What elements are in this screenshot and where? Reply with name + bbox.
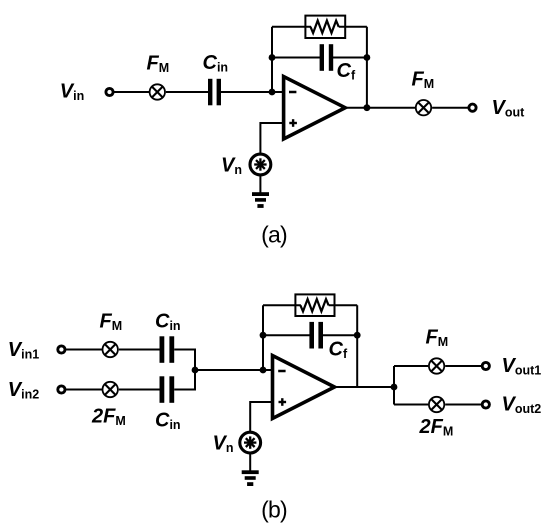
- mixer M4 (chopper 2FM, input 2): [103, 382, 118, 397]
- wire Cin top to join vertical: [174, 349, 196, 351]
- wire Cin to op-amp inverting input: [221, 91, 284, 93]
- wire mixer to output terminal: [432, 107, 468, 109]
- junction output node: [391, 384, 398, 391]
- wire mixer 2 to Cin bottom: [119, 389, 160, 391]
- input terminal Vin1: [58, 346, 65, 353]
- wire top branch to mixer: [394, 365, 428, 367]
- resistor R feedback (boxed): [295, 294, 334, 316]
- op-amp U2: [273, 356, 335, 419]
- svg-text:(b): (b): [261, 497, 287, 523]
- mixer M1 (chopper FM, input): [150, 84, 165, 99]
- wire feedback right vertical: [366, 27, 368, 108]
- noise source Vn: [250, 154, 271, 175]
- wire join vertical: [194, 350, 196, 390]
- wire op-amp non-inverting input to Vn: [250, 402, 272, 433]
- noise source Vn: [240, 432, 261, 453]
- wire input terminal to mixer: [110, 91, 149, 93]
- capacitor Cin (top): [160, 336, 175, 363]
- output terminal Vout: [469, 104, 476, 111]
- wire resistor branch left: [272, 26, 311, 28]
- node summing junction: [269, 89, 276, 96]
- junction Cf branch left: [260, 332, 267, 339]
- capacitor Cin (bottom): [160, 376, 175, 403]
- mixer M2 (chopper FM, output): [416, 100, 431, 115]
- output terminal Vout2: [482, 401, 489, 408]
- capacitor Cf: [309, 322, 323, 349]
- junction summing node: [192, 367, 199, 374]
- input terminal Vin2: [58, 386, 65, 393]
- wire Cf branch left: [272, 57, 321, 59]
- junction Cf branch right: [364, 54, 371, 61]
- wire Vn to ground: [259, 175, 261, 193]
- capacitor Cin: [208, 79, 221, 106]
- resistor R feedback (boxed): [305, 16, 345, 38]
- wire resistor branch right: [329, 304, 358, 306]
- wire Cf branch right: [322, 334, 357, 336]
- wire resistor branch right: [339, 26, 367, 28]
- wire mixer 1 to Cin top: [119, 349, 160, 351]
- wire feedback left vertical: [271, 27, 273, 92]
- junction feedback at inverting input: [260, 367, 267, 374]
- svg-text:(a): (a): [261, 222, 287, 248]
- wire op-amp output to mixer: [344, 107, 415, 109]
- wire Vn to ground: [249, 453, 251, 471]
- wire input terminal 1 to mixer: [66, 349, 102, 351]
- input terminal Vin: [106, 88, 113, 95]
- wire feedback right vertical: [356, 305, 358, 387]
- wire mixer to output terminal 2: [445, 404, 481, 406]
- wire bottom branch to mixer: [394, 404, 428, 406]
- wire resistor branch left: [263, 304, 301, 306]
- wire node to op-amp inverting input: [195, 369, 273, 371]
- junction Cf branch right: [354, 332, 361, 339]
- wire output split vertical: [393, 366, 395, 405]
- wire mixer to output terminal 1: [445, 365, 481, 367]
- ground (a): [252, 192, 269, 208]
- junction Cf branch left: [269, 54, 276, 61]
- mixer M3 (chopper FM, input 1): [103, 342, 118, 357]
- mixer M5 (chopper FM, output 1): [429, 358, 444, 373]
- junction feedback to output: [364, 104, 371, 111]
- wire input terminal 2 to mixer: [66, 389, 102, 391]
- wire feedback left vertical: [262, 305, 264, 370]
- wire Cin bottom to join vertical: [174, 389, 196, 391]
- wire Cf branch right: [332, 57, 367, 59]
- mixer M6 (chopper 2FM, output 2): [429, 397, 444, 412]
- op-amp U1: [284, 77, 346, 140]
- wire op-amp output to node: [333, 386, 394, 388]
- ground (b): [242, 470, 259, 486]
- wire mixer to Cin: [166, 91, 208, 93]
- wire Cf branch left: [263, 334, 310, 336]
- output terminal Vout1: [482, 362, 489, 369]
- capacitor Cf: [320, 44, 334, 71]
- wire op-amp non-inverting input to Vn: [260, 123, 283, 155]
